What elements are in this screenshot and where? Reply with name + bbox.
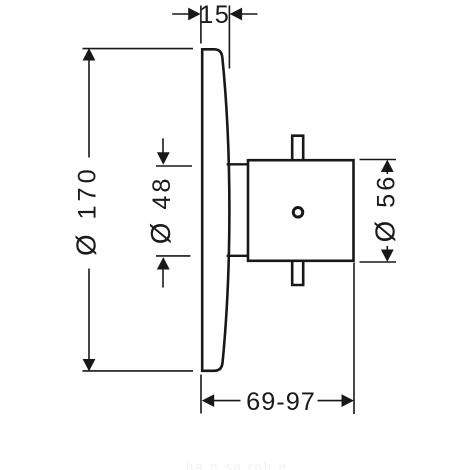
- bottom tab: [292, 261, 303, 285]
- dim 69-97: left extension line: [200, 375, 202, 414]
- dim 69-97: left arrowhead (points left): [202, 394, 214, 407]
- dim D170: upper line segment: [88, 59, 90, 158]
- dim D56: lower line segment: [386, 246, 388, 251]
- escutcheon plate (side view): [202, 49, 229, 371]
- dim 69-97: right arrowhead (points right): [342, 394, 354, 407]
- dim D48: lower tail line: [162, 269, 164, 288]
- dim D170: bottom arrowhead: [83, 359, 96, 371]
- svg-text:69-97: 69-97: [246, 388, 316, 416]
- dim 15: right tail line: [241, 13, 258, 15]
- dim D170: lower line segment: [88, 269, 90, 361]
- dim D56: bottom arrowhead (points down): [381, 250, 394, 262]
- svg-text:Ø 170: Ø 170: [71, 165, 102, 256]
- dim D170: top extension line: [83, 48, 194, 50]
- dim D48: upper tick: [156, 165, 192, 167]
- dim D56: upper line segment: [386, 171, 388, 175]
- dim 69-97: left line segment: [213, 400, 241, 402]
- top tab: [292, 136, 303, 160]
- stem lower line: [227, 255, 249, 257]
- dim 15: right arrowhead: [230, 8, 242, 21]
- svg-text:15: 15: [199, 1, 230, 29]
- dim D56: top extension line: [360, 159, 397, 161]
- dim D56: bottom extension line: [360, 261, 397, 263]
- valve body box: [248, 160, 354, 261]
- dim D48: upper tail line: [162, 138, 164, 152]
- dim 69-97: right line segment: [318, 400, 343, 402]
- dim 15: left tail line: [172, 13, 190, 15]
- dim D48: lower arrowhead (points up): [157, 257, 170, 269]
- stem upper line: [227, 163, 249, 165]
- dim 15: left extension line: [200, 6, 202, 44]
- svg-text:Ø 56: Ø 56: [369, 174, 400, 243]
- svg-text:ha n sg roh e: ha n sg roh e: [186, 459, 288, 470]
- dim D170: bottom extension line: [83, 370, 194, 372]
- svg-text:Ø 48: Ø 48: [145, 176, 176, 245]
- dim D56: top arrowhead (points up): [381, 160, 394, 172]
- dim 15: right extension line: [228, 6, 230, 69]
- dim D170: top arrowhead: [83, 48, 96, 60]
- center screw circle: [293, 208, 303, 218]
- dim D48: upper arrowhead (points down): [157, 152, 170, 164]
- dim 15: left arrowhead: [188, 8, 200, 21]
- dim 69-97: right extension line: [353, 263, 355, 415]
- dim D48: lower tick: [156, 255, 191, 257]
